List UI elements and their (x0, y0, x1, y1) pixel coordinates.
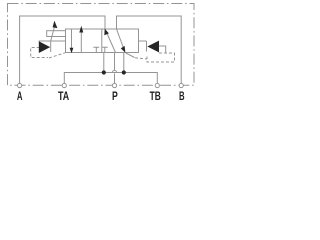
valve left position blocked port T (93, 47, 99, 52)
left check valve line to valve (39, 40, 66, 42)
left check valve seat (50, 41, 52, 52)
left throttle adjust arrow shaft (51, 26, 55, 41)
valve left position up-flow line (80, 30, 82, 53)
valve left position down arrowhead (70, 48, 74, 54)
left pilot dashed box (31, 48, 48, 58)
throttle adjust arrowhead (53, 21, 58, 29)
valve U1 body 4/2 directional valve (66, 29, 139, 53)
svg-text:B: B (179, 89, 185, 103)
valve right position blocked port T (102, 47, 108, 52)
pilot tap line solid diagonal (126, 53, 135, 58)
valve left position down-flow line (71, 29, 73, 49)
port circle TB (155, 83, 159, 87)
valve right position arrowhead down at bus port (121, 46, 126, 53)
wire tank bus TA-TB (64, 73, 157, 84)
wire riser valve port to junction dot left (103, 53, 105, 73)
wire riser valve port to junction dot right (123, 53, 125, 73)
right check valve line to valve (139, 40, 147, 42)
wire B up-over to valve top-right port (117, 16, 182, 83)
junction dot right (122, 70, 126, 74)
left pilot dashed tail to valve corner (49, 53, 65, 58)
valve right position arrowhead up at A port (104, 29, 109, 36)
right check valve seat (146, 41, 148, 52)
right check valve outlet line (159, 46, 166, 53)
junction dot left (102, 70, 106, 74)
wire A up-over to valve top-left port (20, 16, 105, 83)
wire P riser with hop over bus (112, 53, 116, 84)
svg-text:P: P (112, 89, 118, 103)
left check valve poppet triangle (39, 41, 50, 53)
pilot line dashed to right pilot box (135, 58, 147, 59)
right pilot dashed box (147, 53, 175, 62)
enclosure dash-dot border (8, 4, 195, 86)
valve left position up arrowhead (79, 26, 83, 33)
left throttle box on valve side (47, 31, 66, 37)
valve right position diagonal P-to-A (105, 29, 116, 53)
port circle A (18, 83, 22, 87)
svg-text:TB: TB (150, 89, 161, 103)
port circle TA (62, 83, 66, 87)
right check valve poppet triangle (147, 41, 159, 53)
valve right position diagonal B-to-T (117, 29, 124, 48)
port circle P (112, 83, 116, 87)
port circle B (179, 83, 183, 87)
svg-text:TA: TA (58, 89, 69, 103)
svg-text:A: A (17, 89, 23, 103)
